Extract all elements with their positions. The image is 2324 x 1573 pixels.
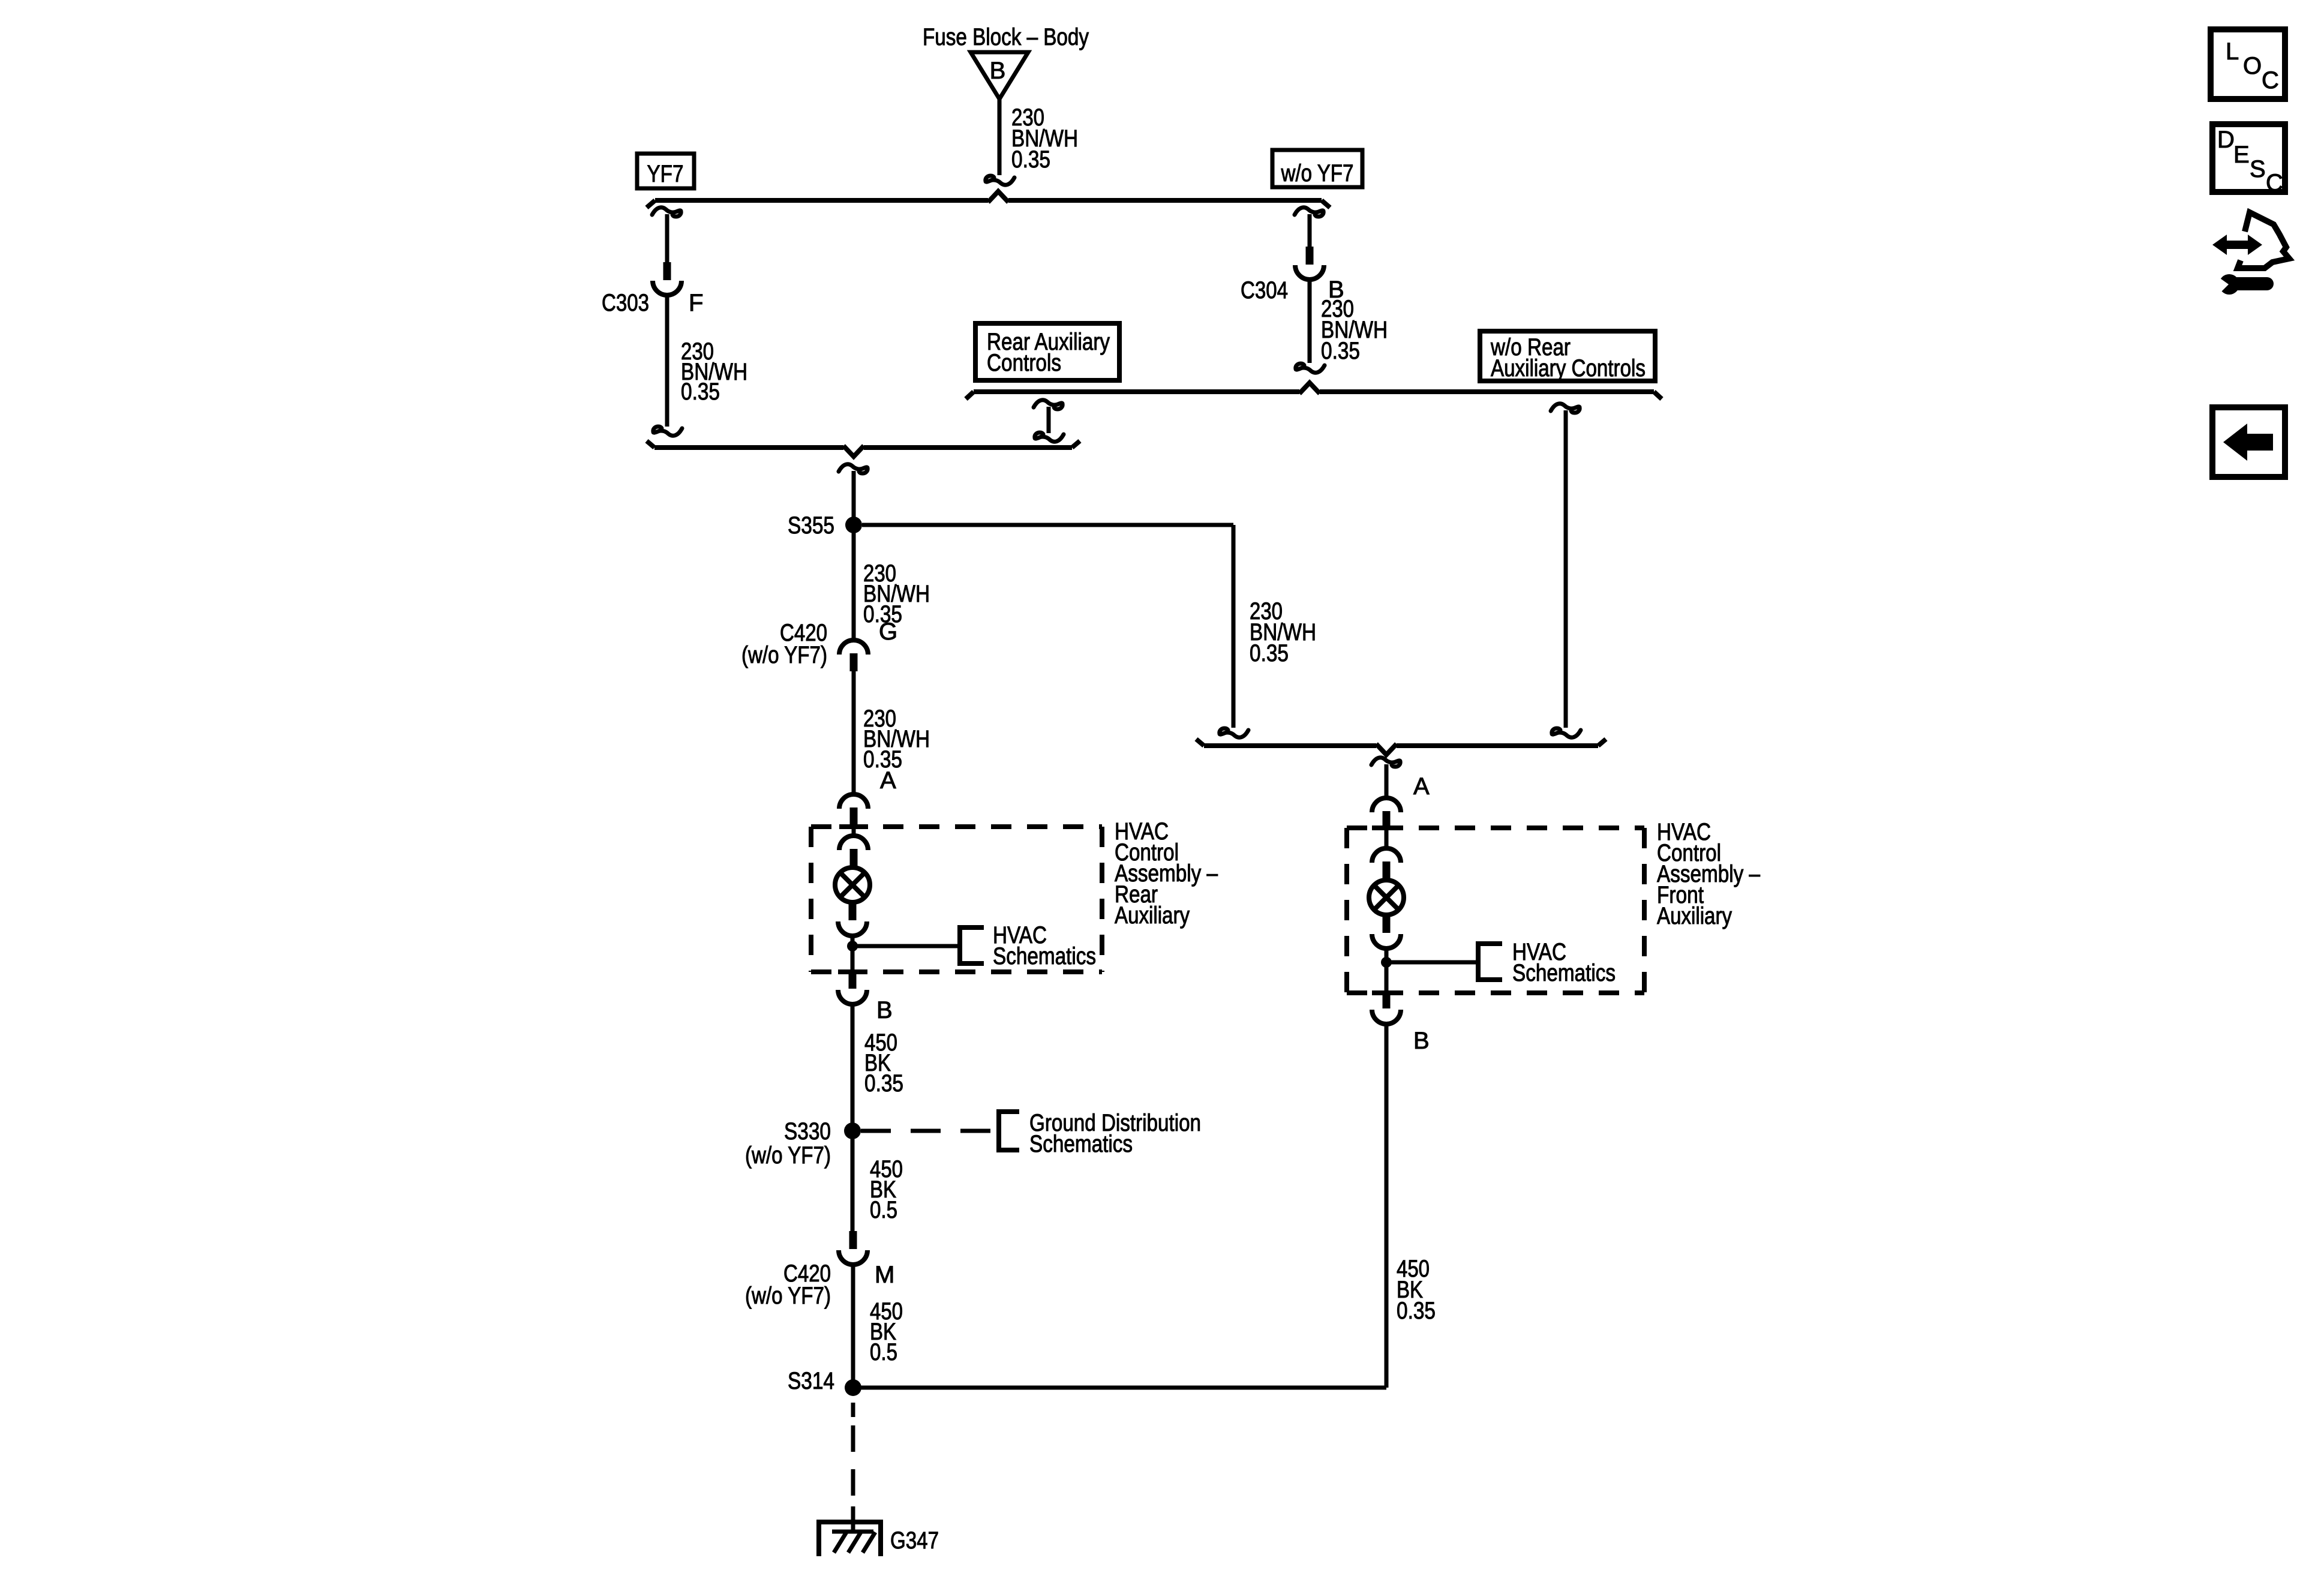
wire 230 BN/WH 0.35 label (fuse) bbox=[1011, 104, 1078, 173]
svg-text:0.35: 0.35 bbox=[1011, 146, 1050, 173]
svg-text:Auxiliary: Auxiliary bbox=[1115, 902, 1190, 929]
splice S314 bbox=[788, 1368, 861, 1396]
label pin B (front) bbox=[1413, 1028, 1430, 1054]
wire 230 BN/WH 0.35 (C303) bbox=[665, 295, 669, 427]
svg-text:Schematics: Schematics bbox=[993, 943, 1096, 969]
node junction notch on bus S4 bbox=[1376, 744, 1397, 755]
dashed wire S314 to ground bbox=[851, 1403, 855, 1532]
wire to HVAC schematics ref (front) bbox=[1386, 960, 1478, 965]
wire fuse block to bus S1 bbox=[998, 99, 1002, 175]
label box w/o Rear Auxiliary Controls bbox=[1480, 331, 1655, 382]
svg-text:S: S bbox=[2250, 156, 2266, 182]
wire lamp to B terminal (front) bbox=[1385, 948, 1389, 991]
svg-text:Fuse Block – Body: Fuse Block – Body bbox=[923, 24, 1089, 50]
lamp pin bottom (front) bbox=[1383, 915, 1391, 933]
wire C420 to HVAC rear A bbox=[852, 671, 856, 794]
svg-text:S355: S355 bbox=[788, 512, 834, 539]
label HVAC Control Assembly Rear Auxiliary bbox=[1115, 818, 1218, 929]
wire 450 BK 0.35 (rear B to S330) bbox=[851, 1004, 855, 1131]
option box YF7 bbox=[637, 154, 694, 188]
svg-text:0.5: 0.5 bbox=[870, 1339, 897, 1365]
wire 450 BK 0.35 (front B to S314) bbox=[1385, 1024, 1389, 1388]
wire label 230 BN/WH 0.35 (to rear A) bbox=[863, 706, 930, 773]
wire label 450 BK 0.35 (rear) bbox=[864, 1029, 903, 1097]
svg-text:G: G bbox=[879, 619, 897, 645]
connector C304 pin B bbox=[1306, 247, 1314, 265]
icon wrench bbox=[2216, 274, 2267, 295]
svg-text:0.35: 0.35 bbox=[1250, 640, 1289, 667]
label HVAC Schematics (front) bbox=[1512, 939, 1616, 986]
svg-text:0.5: 0.5 bbox=[870, 1197, 897, 1223]
svg-text:0.35: 0.35 bbox=[681, 379, 720, 405]
dashed box HVAC Control Assembly Rear Auxiliary bbox=[811, 827, 1102, 972]
dashed wire S330 to ground distribution ref bbox=[861, 1129, 999, 1133]
label C420 (w/o YF7) bbox=[741, 620, 827, 668]
svg-text:Controls: Controls bbox=[987, 350, 1061, 376]
lamp pin bottom (rear) bbox=[849, 902, 857, 920]
wire break curl above bus S3 bbox=[653, 427, 682, 436]
icon box back arrow bbox=[2212, 407, 2285, 477]
terminal B socket (front) bbox=[1372, 1010, 1401, 1024]
lamp socket bottom (rear) bbox=[838, 921, 867, 936]
wire link segment bbox=[1047, 407, 1051, 433]
wire to HVAC schematics ref (rear) bbox=[852, 944, 960, 948]
indicator lamp (rear HVAC) bbox=[835, 867, 870, 902]
connector C420 socket G bbox=[839, 640, 868, 655]
label pin A (rear) bbox=[880, 767, 896, 794]
svg-text:(w/o YF7): (w/o YF7) bbox=[741, 642, 827, 668]
wire break curl below bus S2 right bbox=[1551, 404, 1580, 413]
lamp socket (front) bbox=[1372, 848, 1401, 863]
wire label 450 BK 0.5 (upper) bbox=[870, 1156, 903, 1223]
svg-text:A: A bbox=[1413, 773, 1430, 800]
terminal A socket (front) bbox=[1372, 798, 1401, 812]
wire break curl above bus S4 right bbox=[1552, 728, 1581, 737]
wire break curl above bus S2 bbox=[1296, 364, 1325, 373]
label HVAC Schematics (rear) bbox=[993, 922, 1096, 969]
dashed box HVAC Control Assembly Front Auxiliary bbox=[1347, 828, 1644, 993]
terminal B pin (front) bbox=[1383, 990, 1391, 1008]
svg-text:B: B bbox=[990, 58, 1006, 84]
svg-text:Schematics: Schematics bbox=[1512, 960, 1616, 986]
wire label 230 BN/WH 0.35 (S355 lower) bbox=[863, 560, 930, 628]
label C304 bbox=[1241, 277, 1288, 304]
wire break curl above bus S3 (link) bbox=[1035, 433, 1064, 442]
wire S355 to C420 G bbox=[852, 525, 856, 641]
node junction notch on bus S3 bbox=[843, 446, 864, 457]
terminal A pin (rear) bbox=[850, 807, 858, 825]
wire w/o YF7 branch upper bbox=[1308, 214, 1312, 247]
wire w/o rear aux branch bbox=[1564, 410, 1568, 728]
wire label 450 BK 0.35 (front) bbox=[1397, 1256, 1436, 1324]
svg-text:Schematics: Schematics bbox=[1029, 1131, 1133, 1157]
wire label 230 BN/WH 0.35 (C303) bbox=[681, 338, 747, 405]
svg-text:G347: G347 bbox=[890, 1527, 939, 1554]
node junction notch on bus S2 bbox=[1299, 383, 1320, 394]
wire label 230 BN/WH 0.35 (C304) bbox=[1321, 296, 1388, 364]
ground G347 symbol bbox=[816, 1522, 883, 1556]
icon box DESC bbox=[2212, 124, 2285, 196]
svg-text:w/o YF7: w/o YF7 bbox=[1281, 160, 1354, 187]
svg-text:E: E bbox=[2233, 142, 2250, 168]
bus brace S3 bbox=[647, 441, 1080, 448]
terminal A socket (rear) bbox=[839, 794, 868, 809]
lamp pin top (rear) bbox=[850, 849, 858, 867]
label pin G bbox=[879, 619, 897, 645]
svg-text:0.35: 0.35 bbox=[864, 1070, 903, 1097]
wire stub inside front box bbox=[1385, 829, 1389, 848]
node inside front box bbox=[1381, 957, 1392, 968]
reference bracket Ground Distribution bbox=[999, 1112, 1019, 1150]
svg-text:A: A bbox=[880, 767, 896, 794]
icon connector outline bbox=[2238, 212, 2289, 268]
label pin F bbox=[689, 290, 703, 316]
label HVAC Control Assembly Front Auxiliary bbox=[1657, 819, 1761, 929]
icon wrench double arrow bbox=[2212, 235, 2262, 255]
svg-text:F: F bbox=[689, 290, 703, 316]
label Ground Distribution Schematics bbox=[1029, 1110, 1201, 1157]
icon box LOC bbox=[2211, 29, 2285, 99]
label C420 (w/o YF7) lower bbox=[745, 1260, 831, 1309]
wire break curl above bus S1 bbox=[986, 176, 1014, 185]
connector C303 socket bbox=[653, 281, 681, 295]
indicator lamp (front HVAC) bbox=[1369, 880, 1404, 915]
wire bus S4 to front HVAC A bbox=[1385, 764, 1389, 798]
fuse block B - power feed triangle bbox=[971, 52, 1028, 99]
wire break curl below bus S4 bbox=[1371, 758, 1400, 767]
lamp pin top (front) bbox=[1383, 861, 1391, 879]
option box w/o YF7 bbox=[1272, 150, 1362, 187]
svg-text:S314: S314 bbox=[788, 1368, 834, 1394]
label C303 bbox=[602, 290, 649, 316]
wire label 450 BK 0.5 (lower) bbox=[870, 1298, 903, 1365]
reference bracket HVAC Schematics (front) bbox=[1478, 944, 1502, 980]
terminal B pin (rear) bbox=[849, 971, 857, 989]
wire 230 BN/WH 0.35 (C304) bbox=[1308, 280, 1312, 363]
splice S330 bbox=[745, 1118, 861, 1169]
connector C303 pin F bbox=[663, 262, 671, 280]
svg-text:YF7: YF7 bbox=[647, 161, 684, 187]
svg-text:C303: C303 bbox=[602, 290, 649, 316]
lamp socket bottom (front) bbox=[1372, 934, 1401, 948]
reference bracket HVAC Schematics (rear) bbox=[960, 927, 984, 963]
svg-text:D: D bbox=[2217, 127, 2235, 153]
wire S314 to front HVAC branch bbox=[853, 1386, 1386, 1390]
node junction notch on bus S1 bbox=[988, 191, 1008, 202]
svg-text:0.35: 0.35 bbox=[1321, 338, 1360, 364]
svg-text:S330: S330 bbox=[784, 1118, 831, 1145]
wire break curl below bus S2 (link) bbox=[1034, 400, 1062, 409]
wire break curl above bus S4 left bbox=[1220, 728, 1248, 737]
label box Rear Auxiliary Controls bbox=[975, 323, 1119, 380]
bus brace S2 bbox=[966, 392, 1662, 399]
wire break curl below bus S3 bbox=[839, 464, 867, 473]
svg-text:C: C bbox=[2262, 67, 2279, 94]
svg-text:0.35: 0.35 bbox=[1397, 1298, 1436, 1324]
svg-text:(w/o YF7): (w/o YF7) bbox=[745, 1142, 831, 1169]
svg-text:B: B bbox=[876, 997, 893, 1023]
wire stub inside rear box bbox=[852, 825, 856, 836]
svg-text:C: C bbox=[2266, 170, 2283, 196]
svg-text:M: M bbox=[875, 1262, 894, 1288]
svg-text:L: L bbox=[2226, 38, 2239, 65]
fuse block label bbox=[923, 24, 1089, 50]
wire S355 right branch horizontal bbox=[862, 523, 1233, 527]
terminal B socket (rear) bbox=[838, 990, 867, 1004]
node inside rear box bbox=[847, 941, 858, 951]
terminal A pin (front) bbox=[1383, 811, 1391, 829]
connector C304 socket bbox=[1295, 265, 1324, 280]
label pin M bbox=[875, 1262, 894, 1288]
wire break curl below bus S1 right bbox=[1295, 208, 1323, 217]
wire label 230 BN/WH 0.35 (right branch) bbox=[1250, 598, 1316, 667]
bus brace S1 (YF7 / w-o YF7 split) bbox=[647, 200, 1330, 208]
wire YF7 branch upper bbox=[665, 214, 669, 262]
connector C420 pin G bbox=[850, 653, 858, 671]
label G347 bbox=[890, 1527, 939, 1554]
splice S355 bbox=[788, 512, 862, 539]
wire 450 BK 0.5 (C420 M to S314) bbox=[851, 1265, 855, 1388]
svg-text:B: B bbox=[1413, 1028, 1430, 1054]
label pin A (front) bbox=[1413, 773, 1430, 800]
connector C420 pin M bbox=[849, 1231, 857, 1249]
bus brace S4 bbox=[1196, 739, 1606, 746]
label pin B (rear) bbox=[876, 997, 893, 1023]
svg-text:O: O bbox=[2243, 53, 2262, 79]
wire 450 BK 0.5 (S330 to C420 M) bbox=[851, 1131, 855, 1231]
svg-text:C304: C304 bbox=[1241, 277, 1288, 304]
svg-text:Auxiliary: Auxiliary bbox=[1657, 903, 1732, 929]
lamp socket (rear) bbox=[839, 836, 868, 850]
wire break curl below bus S1 left bbox=[652, 208, 681, 217]
wire S355 right branch vertical bbox=[1232, 525, 1236, 728]
wire bus S3 to S355 bbox=[852, 471, 856, 525]
connector C420 socket M bbox=[839, 1250, 867, 1265]
wire lamp to B terminal (rear) bbox=[851, 936, 855, 971]
label pin B (C304) bbox=[1328, 277, 1344, 303]
svg-text:(w/o YF7): (w/o YF7) bbox=[745, 1283, 831, 1309]
svg-text:Auxiliary Controls: Auxiliary Controls bbox=[1491, 355, 1646, 382]
